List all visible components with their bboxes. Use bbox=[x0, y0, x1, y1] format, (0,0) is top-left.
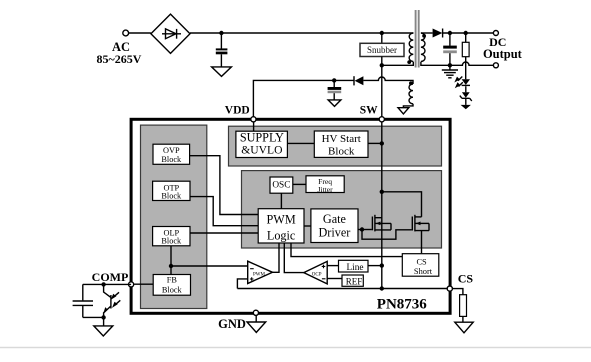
svg-text:Gate: Gate bbox=[323, 212, 346, 226]
wire DC bus top rail bbox=[190, 32, 413, 34]
wire secondary bottom rail with hop bbox=[421, 62, 494, 66]
node Line SW bbox=[380, 263, 384, 267]
node SW primary junction bbox=[380, 63, 384, 67]
node VDD cap bbox=[332, 78, 336, 82]
svg-text:SW: SW bbox=[360, 105, 378, 117]
terminal DC- bbox=[493, 63, 498, 68]
svg-text:&UVLO: &UVLO bbox=[241, 144, 282, 157]
wire OCP plus to Line bbox=[327, 265, 338, 267]
wire zener to arrow bbox=[465, 99, 467, 105]
svg-text:Output: Output bbox=[483, 47, 523, 61]
panel middle pwm bbox=[242, 171, 442, 248]
wire OSC to Freq Jitter bbox=[293, 183, 306, 185]
block Freq Jitter bbox=[306, 176, 344, 194]
node output resistor bbox=[464, 31, 468, 35]
terminal DC+ bbox=[493, 31, 498, 36]
wire drain link M2 bbox=[382, 192, 422, 217]
transistor M1 bbox=[372, 215, 391, 232]
wire snubber to SW node bbox=[381, 57, 383, 66]
block HV Start bbox=[314, 131, 368, 158]
pin GND bbox=[253, 310, 258, 315]
wire LED to zener bbox=[465, 86, 467, 92]
wire VDD riser bbox=[253, 80, 334, 119]
AC input terminal bbox=[123, 30, 129, 36]
block SUPPLY &UVLO bbox=[236, 130, 288, 157]
comparator OCP bbox=[304, 261, 327, 284]
wire output top rail bbox=[443, 32, 494, 34]
svg-text:Block: Block bbox=[161, 237, 182, 246]
svg-text:Driver: Driver bbox=[318, 226, 350, 240]
wire supply to hv start bbox=[287, 142, 314, 144]
svg-text:Jitter: Jitter bbox=[318, 185, 334, 194]
block OSC bbox=[270, 177, 293, 193]
wire aux winding to ground bbox=[403, 104, 413, 108]
wire FB to PWM comparator minus bbox=[171, 265, 248, 267]
node CS SW bbox=[380, 286, 384, 290]
svg-text:Block: Block bbox=[161, 191, 182, 200]
wire cap to opto emitter bbox=[83, 316, 104, 318]
wire gate to MOSFET2 gate bbox=[362, 230, 412, 240]
node secondary ground bbox=[448, 63, 452, 67]
primary winding bbox=[409, 33, 413, 61]
secondary winding bbox=[421, 33, 425, 61]
svg-text:PWM: PWM bbox=[267, 213, 296, 227]
page separator line bbox=[0, 347, 591, 349]
wire OCP output bbox=[284, 243, 304, 273]
wire COMP external bbox=[83, 283, 131, 285]
comparator PWM bbox=[248, 261, 273, 283]
IC PN8736 outline bbox=[131, 119, 450, 313]
wire primary bottom bbox=[382, 62, 414, 66]
transistor M2 bbox=[412, 215, 429, 232]
svg-text:VDD: VDD bbox=[225, 105, 250, 117]
svg-text:Block: Block bbox=[161, 155, 182, 164]
wire OVP to PWM logic bbox=[190, 156, 259, 215]
svg-text:CS: CS bbox=[458, 271, 474, 285]
snubber box bbox=[360, 43, 404, 56]
svg-text:GND: GND bbox=[218, 317, 246, 331]
resistor CS sense R1 bbox=[460, 295, 467, 317]
svg-text:PN8736: PN8736 bbox=[377, 296, 427, 312]
zener diode ZD1 bbox=[460, 92, 472, 101]
svg-text:Block: Block bbox=[162, 286, 183, 295]
svg-text:OCP: OCP bbox=[312, 272, 322, 277]
svg-text:OSC: OSC bbox=[272, 181, 290, 191]
pin COMP bbox=[129, 282, 134, 287]
wire SW net vertical bbox=[381, 65, 383, 288]
block REF bbox=[342, 275, 363, 287]
ground bulk cap bbox=[212, 67, 232, 77]
block OTP bbox=[153, 181, 190, 200]
wire PWM comparator output bbox=[273, 243, 280, 272]
block CS Short bbox=[402, 254, 439, 277]
svg-text:HV Start: HV Start bbox=[322, 133, 361, 145]
resistor output R2 bbox=[462, 33, 469, 79]
pin VDD bbox=[251, 117, 256, 122]
wire VDD cap to diode bbox=[334, 79, 354, 81]
arrow secondary return bbox=[461, 105, 471, 109]
svg-text:Line: Line bbox=[346, 263, 363, 273]
capacitor COMP C4 bbox=[73, 284, 93, 317]
wire gate driver to gates bbox=[358, 229, 372, 231]
wire VDD pin to supply bbox=[253, 119, 255, 131]
wire diode to aux winding with hop over SW bbox=[363, 77, 413, 84]
wire PWM logic to gate driver bbox=[304, 225, 311, 227]
pin CS bbox=[447, 286, 452, 291]
node COMP opto bbox=[101, 282, 105, 286]
svg-text:SUPPLY: SUPPLY bbox=[240, 130, 284, 144]
block OVP bbox=[153, 144, 190, 164]
node snubber junction bbox=[380, 31, 384, 35]
ground earth secondary bbox=[442, 65, 458, 78]
capacitor output C3 bbox=[443, 33, 457, 65]
wire PWM logic to CS short bbox=[291, 243, 402, 257]
svg-text:Short: Short bbox=[414, 267, 433, 276]
svg-text:Snubber: Snubber bbox=[367, 45, 397, 55]
wire PWM comparator plus tap bbox=[237, 279, 247, 289]
svg-text:85~265V: 85~265V bbox=[97, 52, 142, 66]
ground VDD cap bbox=[328, 100, 341, 107]
wire OTP to PWM logic bbox=[190, 197, 258, 226]
wire COMP to FB bbox=[131, 283, 153, 285]
svg-text:Logic: Logic bbox=[267, 229, 296, 243]
svg-text:REF: REF bbox=[346, 277, 363, 287]
block Line bbox=[339, 260, 369, 273]
wire M2 source to CS short bbox=[421, 231, 423, 254]
panel left blocks bbox=[141, 125, 207, 308]
svg-text:FB: FB bbox=[167, 275, 178, 284]
wire OSC to PWM logic bbox=[280, 193, 282, 209]
ground COMP bbox=[94, 326, 113, 336]
wire AC terminal to bridge bbox=[129, 32, 151, 34]
capacitor bulk C1 bbox=[216, 33, 228, 67]
block PWM Logic bbox=[258, 209, 304, 243]
ground GND pin bbox=[255, 316, 257, 322]
wire hv start to SW net bbox=[368, 142, 382, 144]
transistor opto U2b bbox=[103, 284, 120, 317]
block Gate Driver bbox=[311, 209, 358, 243]
capacitor VDD C2 bbox=[328, 80, 342, 100]
wire rail to snubber bbox=[381, 33, 383, 43]
svg-text:COMP: COMP bbox=[92, 270, 129, 284]
block FB bbox=[153, 275, 190, 296]
secondary polarity dot bbox=[422, 34, 426, 38]
inductor aux winding bbox=[409, 84, 413, 104]
wire OLP to FB bbox=[170, 246, 172, 275]
aux winding polarity dot bbox=[409, 81, 413, 85]
node gate bbox=[360, 227, 364, 231]
block OLP bbox=[153, 227, 190, 246]
diode output rectifier D2 bbox=[433, 29, 443, 38]
bridge rectifier BD1 bbox=[151, 14, 190, 53]
primary polarity dot bbox=[407, 60, 411, 64]
wire OCP minus to REF bbox=[327, 278, 342, 280]
node FB comp bbox=[169, 264, 173, 268]
node SW mosfet drain bbox=[380, 190, 384, 194]
transformer T1 bbox=[407, 10, 426, 68]
pin SW bbox=[379, 117, 384, 122]
svg-text:PWM: PWM bbox=[253, 272, 266, 277]
ground CS resistor bbox=[455, 322, 473, 333]
ground aux winding bbox=[398, 108, 409, 114]
wire resistor to ground bbox=[462, 316, 464, 322]
node hv start SW bbox=[380, 141, 384, 145]
svg-text:CS: CS bbox=[416, 258, 427, 267]
diode VDD D1 bbox=[354, 76, 363, 85]
wire opto to ground bbox=[103, 317, 105, 326]
wire OLP to PWM logic bbox=[190, 232, 258, 234]
wire CS sense line bbox=[237, 288, 449, 290]
wire CS pin to sense resistor bbox=[453, 289, 463, 295]
svg-text:Block: Block bbox=[328, 146, 355, 158]
panel top supply bbox=[229, 126, 442, 166]
opto LED U2a bbox=[454, 77, 470, 89]
wire secondary top bbox=[421, 32, 433, 34]
core lines bbox=[415, 10, 417, 68]
node bulk cap junction bbox=[219, 31, 223, 35]
node output cap bbox=[448, 31, 452, 35]
wire Line to SW net bbox=[368, 265, 382, 267]
node opto emitter bbox=[101, 315, 105, 319]
